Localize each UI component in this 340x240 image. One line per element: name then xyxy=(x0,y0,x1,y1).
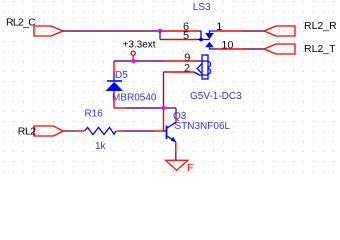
relay LS3 contact xyxy=(197,31,217,49)
svg-text:D5: D5 xyxy=(115,70,128,81)
svg-text:RL2_C: RL2_C xyxy=(6,17,36,29)
svg-text:RL2: RL2 xyxy=(18,126,37,138)
transistor Q3 xyxy=(163,122,176,142)
junction dot pin5/6 xyxy=(199,38,203,42)
svg-text:LS3: LS3 xyxy=(193,2,211,13)
wire pin10 to RL2_T xyxy=(217,48,265,50)
wire R16 to gate xyxy=(117,130,163,132)
wire RL2_C to junction (dark) xyxy=(63,30,158,32)
wire pin1 to RL2_R xyxy=(217,30,265,32)
svg-text:R16: R16 xyxy=(85,109,104,120)
junction dot drain net xyxy=(161,106,165,110)
ground F xyxy=(166,160,194,174)
wire corner down to drain junction xyxy=(163,72,165,106)
svg-text:MBR0540: MBR0540 xyxy=(112,93,157,104)
resistor R16 xyxy=(85,127,117,134)
wire junction to drain xyxy=(166,108,177,123)
wire RL2 to R16 xyxy=(63,130,84,132)
svg-text:+3.3ext: +3.3ext xyxy=(123,40,156,51)
svg-text:10: 10 xyxy=(221,40,233,52)
junction dot +3.3ext xyxy=(131,59,135,63)
port RL2_R xyxy=(264,20,337,36)
wire +3.3ext net to pin9 xyxy=(114,60,197,62)
port RL2 xyxy=(18,126,63,138)
junction dot +RL2_C net xyxy=(158,29,162,33)
diode D5 xyxy=(106,61,124,108)
svg-text:5: 5 xyxy=(183,30,189,42)
port RL2_C xyxy=(6,17,63,37)
port RL2_T xyxy=(264,43,336,55)
wire to pin5 xyxy=(160,39,197,41)
wire pin2 to corner xyxy=(164,71,195,73)
wire junction down xyxy=(159,31,161,40)
svg-text:G5V-1-DC3: G5V-1-DC3 xyxy=(190,91,242,102)
power port +3.3ext xyxy=(123,40,156,61)
wire D5 to drain junction xyxy=(114,107,162,109)
wire junction to pin6 xyxy=(162,30,198,32)
svg-text:RL2_T: RL2_T xyxy=(304,43,336,55)
svg-text:RL2_R: RL2_R xyxy=(304,20,337,32)
relay LS3 coil xyxy=(194,55,210,79)
svg-text:F: F xyxy=(187,162,193,174)
wire source to ground xyxy=(175,142,177,160)
svg-text:1k: 1k xyxy=(95,141,107,152)
wire junction down to gate xyxy=(163,110,165,131)
svg-text:STN3NF06L: STN3NF06L xyxy=(175,121,231,132)
